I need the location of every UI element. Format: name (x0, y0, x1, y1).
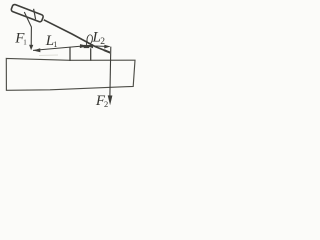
svg-text:1: 1 (53, 40, 57, 49)
force F1 arrowhead (29, 45, 33, 51)
rod end blob (104, 49, 111, 53)
dimension line L2 (87, 45, 110, 48)
support post left below dimension line (69, 47, 71, 61)
svg-text:1: 1 (23, 38, 27, 46)
box (table) outline (6, 58, 135, 90)
dimension line L1 (33, 46, 86, 51)
handle (grip sleeve) (11, 4, 44, 22)
L2 right arrowhead (104, 45, 110, 49)
force F2 arrow line (110, 47, 111, 101)
L1 right arrowhead (80, 44, 88, 48)
faint bleed-through line (39, 54, 58, 57)
svg-text:2: 2 (104, 99, 108, 109)
junction dark mass at O (84, 45, 90, 48)
tick below O joining dimension lines (86, 42, 88, 46)
rod (lever bar) (44, 20, 110, 53)
handle cross stroke (34, 9, 36, 19)
force F1 arrow line (24, 12, 31, 46)
force F2 arrowhead (108, 95, 113, 105)
L1 left arrowhead (33, 48, 40, 52)
svg-text:2: 2 (100, 37, 105, 47)
support post right below pivot O (90, 48, 92, 60)
L2 left arrowhead (85, 44, 93, 48)
